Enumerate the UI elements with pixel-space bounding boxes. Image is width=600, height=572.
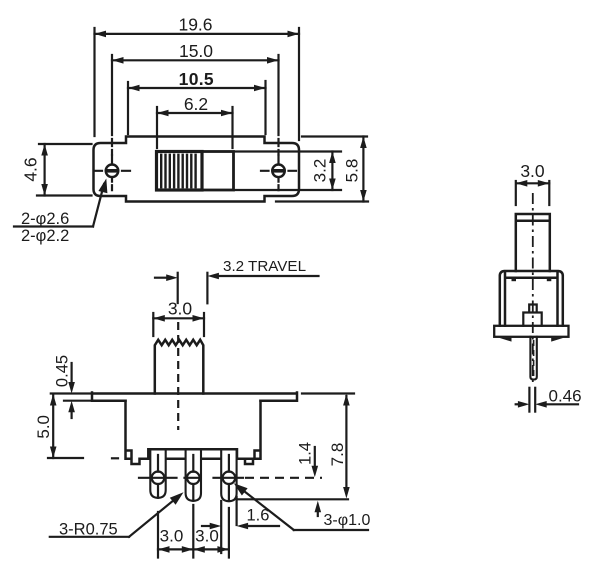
switch body sides and bottom with feet	[126, 401, 261, 464]
svg-text:2-φ2.2: 2-φ2.2	[21, 227, 69, 245]
centre contact mechanism	[523, 305, 541, 326]
svg-text:2-φ2.6: 2-φ2.6	[21, 210, 69, 228]
front view: actuator knob with serrated top	[155, 340, 204, 394]
pin end extension line	[239, 498, 349, 500]
small up arrow under pin-end line	[317, 508, 319, 516]
svg-text:5.0: 5.0	[34, 415, 53, 439]
terminal pin (side)	[530, 337, 536, 380]
svg-text:5.8: 5.8	[343, 159, 362, 183]
mounting flange (side)	[494, 326, 568, 337]
dashed hole-centre line to right	[245, 477, 322, 479]
svg-text:6.2: 6.2	[184, 94, 208, 114]
svg-text:3.0: 3.0	[168, 299, 193, 319]
mounting flange (front)	[92, 393, 297, 401]
svg-text:1.4: 1.4	[297, 442, 315, 465]
svg-text:3-φ1.0: 3-φ1.0	[324, 512, 371, 529]
svg-text:15.0: 15.0	[179, 41, 213, 61]
svg-text:4.6: 4.6	[21, 157, 41, 181]
knob centreline dashed	[177, 322, 179, 430]
svg-text:3.0: 3.0	[520, 161, 545, 181]
svg-text:3.2 TRAVEL: 3.2 TRAVEL	[223, 258, 306, 275]
hole left centrelines	[95, 156, 131, 191]
svg-text:19.6: 19.6	[178, 15, 212, 35]
svg-text:0.46: 0.46	[549, 387, 582, 406]
slider knob with serration hatch	[157, 152, 203, 191]
terminal base block	[148, 449, 237, 458]
svg-text:10.5: 10.5	[179, 69, 214, 89]
mounting hole right	[272, 165, 285, 178]
terminal pin 3	[221, 450, 236, 502]
svg-text:3.0: 3.0	[160, 527, 184, 546]
actuator stem (side)	[516, 214, 550, 271]
top view: switch body outline (plan)	[94, 137, 300, 202]
hole right centrelines	[261, 156, 296, 191]
svg-text:7.8: 7.8	[328, 443, 347, 467]
terminal pin 1	[150, 450, 165, 498]
svg-text:3.0: 3.0	[195, 527, 219, 546]
slider slot window	[157, 152, 234, 191]
mounting hole left (2-phi2.6/2.2)	[106, 165, 119, 178]
pin hole crosshairs	[139, 477, 243, 479]
pin holes 3-phi1.0	[152, 472, 165, 485]
terminal pin 2	[186, 450, 201, 501]
switch body (side) with inner walls	[500, 271, 563, 326]
flange crimp tabs	[499, 338, 512, 342]
svg-text:3.2: 3.2	[311, 159, 330, 183]
pin centre extension lines	[158, 455, 229, 558]
body inner tick marks	[512, 278, 517, 281]
side view centreline dash-dot	[532, 193, 534, 382]
